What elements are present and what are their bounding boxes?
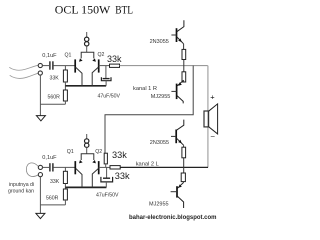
svg-text:0,1uF: 0,1uF bbox=[42, 155, 57, 161]
svg-text:bahar-electronic.blogspot.com: bahar-electronic.blogspot.com bbox=[129, 214, 217, 221]
svg-text:kanal 1 R: kanal 1 R bbox=[133, 86, 157, 92]
svg-text:Q2: Q2 bbox=[95, 149, 102, 155]
svg-text:560R: 560R bbox=[48, 95, 61, 101]
svg-text:33K: 33K bbox=[50, 179, 60, 185]
svg-text:–: – bbox=[211, 134, 215, 141]
svg-text:+: + bbox=[210, 93, 215, 102]
svg-text:33k: 33k bbox=[107, 54, 122, 64]
svg-text:Q2: Q2 bbox=[98, 52, 105, 58]
svg-text:OCL 150W: OCL 150W bbox=[55, 2, 111, 16]
svg-text:33K: 33K bbox=[50, 76, 60, 82]
svg-text:47uF/50V: 47uF/50V bbox=[98, 93, 121, 99]
svg-text:33k: 33k bbox=[115, 171, 130, 181]
svg-text:47uF/50V: 47uF/50V bbox=[96, 192, 119, 198]
svg-text:ground kan: ground kan bbox=[8, 188, 34, 194]
svg-text:Q1: Q1 bbox=[67, 149, 74, 155]
svg-text:kanal 2 L: kanal 2 L bbox=[136, 161, 159, 167]
svg-text:BTL: BTL bbox=[115, 2, 133, 16]
svg-text:0,1uF: 0,1uF bbox=[42, 53, 57, 59]
svg-text:inputnya di: inputnya di bbox=[9, 182, 34, 188]
svg-text:2N3055: 2N3055 bbox=[150, 140, 169, 146]
svg-text:560R: 560R bbox=[46, 195, 59, 201]
svg-text:Q1: Q1 bbox=[65, 53, 72, 59]
svg-text:2N3055: 2N3055 bbox=[150, 39, 169, 45]
svg-text:33k: 33k bbox=[112, 150, 127, 160]
svg-text:MJ2955: MJ2955 bbox=[151, 94, 171, 100]
svg-text:MJ2955: MJ2955 bbox=[149, 201, 169, 207]
